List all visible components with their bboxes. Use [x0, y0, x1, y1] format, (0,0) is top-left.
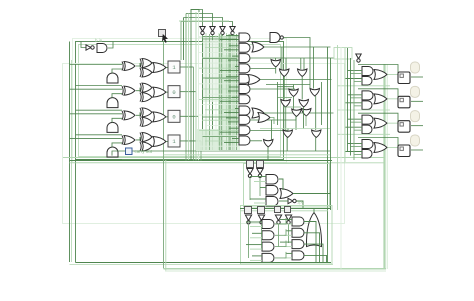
OR gate combine a — [252, 42, 264, 52]
wire: cmp vert 1 — [249, 178, 251, 200]
wire: zero-detect 11 inputs — [232, 138, 239, 140]
wire: operand bus vertical 6 — [223, 35, 225, 150]
AND gate zero-detect 4 — [239, 64, 250, 73]
wire: operand bus dark weave — [203, 38, 238, 40]
XOR gate row4 (sum half) — [124, 135, 135, 144]
wire: row1 carry up stub — [112, 69, 122, 73]
wire: dec feeds right — [280, 219, 292, 221]
wire: right feed vertical x345 — [344, 48, 346, 162]
wire: group2 enable top — [358, 89, 398, 98]
NOT gate cmp out — [288, 198, 293, 203]
wire: dec vert 2 — [261, 224, 263, 250]
wire: carry out feed from adder — [112, 151, 126, 156]
wire: operand bus vertical dark b — [229, 34, 231, 150]
wire: row1 riser vertical — [190, 10, 192, 161]
pin box row1 value 1 — [168, 61, 180, 73]
wire: group3 input 2 — [351, 121, 363, 123]
XOR gate row2 (sum half) — [124, 86, 135, 95]
wire: operand bus vertical 11 — [236, 34, 238, 150]
AND gate row3 carry (up) — [107, 122, 118, 132]
icon: poke tool square — [159, 30, 166, 37]
wire: group1 enable top — [358, 65, 398, 74]
wire: operand bus vertical 10 — [233, 33, 235, 150]
wire: dec left outs — [275, 218, 286, 224]
wire: drop to V3 — [300, 58, 302, 69]
wire: dec vert 4 — [288, 224, 290, 243]
wire: V1 input drop — [275, 58, 277, 60]
AND gate zero-detect 11 — [239, 136, 250, 145]
XOR gate row3 (sum half) — [124, 111, 135, 120]
AND gate out1 a — [362, 67, 373, 76]
wire: row2 riser vertical — [185, 14, 187, 161]
wire: row1 input A from bus — [70, 64, 123, 66]
AND gate out4 b — [362, 149, 372, 158]
halo fill: operand bus patch 2 — [196, 129, 219, 151]
wire: group1 or to register — [388, 74, 398, 76]
wire: out3 output — [411, 125, 423, 127]
NOT gate vertical input 2 — [210, 27, 215, 32]
AND gate out3 a — [362, 115, 373, 124]
wire: bottom run y262 — [76, 262, 332, 264]
wire: row4 xor to pair — [136, 137, 140, 140]
wire: tree vertical x321 — [321, 82, 323, 125]
wire: row3 top jog to inverter — [184, 18, 223, 27]
wire: tree vertical x271 — [271, 120, 273, 140]
wire: tree or-right out — [270, 118, 274, 125]
register box out1 — [398, 72, 410, 84]
wire: column out y89 — [250, 88, 295, 90]
wire: operand bus vertical 3 — [215, 35, 217, 150]
AND gate zero-detect 9 — [239, 115, 250, 124]
svg-text:carry out: carry out — [135, 149, 153, 154]
svg-text:b in: b in — [95, 38, 103, 43]
region halo: comparator block — [244, 164, 330, 208]
region halo: left adder block inner light — [79, 45, 281, 157]
wire: zero-detect 4 inputs — [235, 65, 239, 67]
OR gate down V3 — [298, 69, 308, 77]
AND gate dec left 3 — [262, 242, 274, 251]
wire: left vertical bus x71 light — [71, 60, 73, 262]
OR gate row3 (combine) — [153, 112, 166, 122]
halo fill: operand bus patch 3 — [203, 40, 221, 102]
icon: poke tool arrow cursor — [162, 34, 168, 43]
wire: V1 output — [275, 67, 277, 74]
AND gate row4 carry (up) — [107, 147, 118, 157]
wire: row2 input B from bus — [76, 109, 123, 111]
wire: V12 output down to bus — [267, 147, 269, 161]
wire: operand bus vertical dark a — [219, 34, 221, 150]
OR gate down V5 — [310, 89, 320, 97]
wire: column out y141 — [250, 140, 262, 142]
wire: row1 or to pin — [166, 67, 168, 69]
wire: subtract AND output — [108, 42, 113, 49]
wire: group1 input 3 — [345, 78, 362, 80]
wire: group2 input 3 — [345, 102, 362, 104]
OR gate out1 — [374, 70, 387, 80]
wire: tree feed v304 — [303, 58, 305, 70]
AND gate out2 a — [362, 91, 373, 100]
wire: cmp vert 2 — [259, 178, 261, 196]
NOT gate vertical input 1 — [200, 27, 205, 32]
wire: row4 riser vertical — [180, 22, 182, 61]
AND gate zero-detect 10 — [239, 126, 250, 135]
LED out1 (off) — [411, 62, 420, 73]
wire: V2 output down to V6 — [283, 77, 285, 100]
wire: dec vert 3 — [278, 224, 280, 247]
wire: row1 sum drop vertical — [193, 67, 195, 161]
wire: right feed vertical x337 light — [337, 45, 339, 210]
XOR gate row3 (sum full) — [142, 108, 152, 117]
wire: decoder top bus 1 — [240, 208, 331, 210]
wire: zero-detect 7 inputs — [232, 96, 239, 98]
wire: row1 xor to pair — [136, 63, 140, 66]
wire: tree feed v286 — [285, 58, 287, 70]
wire: row2 sum drop vertical — [195, 92, 197, 161]
wire: row1 top jog to inverter — [191, 10, 203, 27]
wire: vertical link x163 — [163, 42, 165, 269]
wire: cmp feeds — [250, 176, 266, 178]
AND gate out2 b — [362, 101, 372, 110]
OR gate down V1 (tree root) — [271, 60, 281, 68]
AND gate (subtract mask) — [97, 44, 107, 53]
wire: operand bus vertical 2 — [209, 34, 211, 150]
pin square dec 3 — [275, 207, 281, 213]
wire: inverter 1 output down — [202, 35, 204, 150]
AND gate zero-detect 3 — [239, 54, 250, 63]
wire: dec or out up — [313, 209, 315, 213]
wire: right light band x384 — [383, 64, 385, 269]
wire: group4 input 3 — [345, 150, 362, 152]
wire: group1 input 4 — [354, 81, 362, 83]
AND gate out1 b — [362, 77, 372, 86]
register box out4 — [398, 145, 410, 157]
OR gate down V2 — [280, 69, 290, 77]
wire: group2 input 4 — [354, 105, 362, 107]
wire: row1 input B from bus — [76, 85, 123, 87]
wire: tree cross y128 light — [260, 128, 330, 130]
LED out4 (off) — [411, 135, 420, 146]
wire: row2 carry up stub — [112, 94, 122, 98]
AND gate row1 carry (up) — [107, 73, 118, 83]
wire: zero-detect 3 inputs — [232, 55, 239, 57]
OR gate row2 (combine) — [153, 87, 166, 97]
wire: group4 input 2 — [351, 145, 363, 147]
wire: nand out — [284, 38, 311, 89]
wire: V10 output down — [286, 138, 288, 152]
wire: group4 enable top — [358, 137, 398, 146]
OR gate down V11 — [312, 130, 322, 138]
OR gate out2 — [374, 94, 387, 104]
wire: comparator top feed — [164, 154, 331, 156]
pin box row3 value 0 — [168, 110, 180, 122]
wire: cmp and1 out — [279, 179, 283, 190]
wire: column out y47 — [264, 46, 331, 48]
wire: column out y79 to or-b — [260, 79, 332, 81]
AND gate out4 a — [362, 139, 373, 148]
wire: spare riser light 2 — [195, 12, 197, 160]
wire: group2 input 2 — [351, 97, 363, 99]
wire: spare riser light 3 — [198, 12, 200, 160]
wire: right feed vertical x347 — [347, 48, 349, 152]
wire: under-inverter rail — [203, 36, 239, 38]
wire: out2 output — [411, 100, 423, 102]
wire: top nest light lid — [179, 20, 229, 22]
wire: row3 input B from bus — [76, 134, 123, 136]
OR gate down V9 — [302, 109, 312, 117]
pin square dec 4 — [285, 207, 291, 213]
wire: left vertical bus x75 — [75, 159, 77, 263]
wire: cmp or out — [293, 193, 331, 195]
wire: dec vert 1 — [248, 224, 250, 258]
OR gate down V10 — [283, 130, 293, 138]
wire: cmp out right — [297, 201, 304, 209]
AND gate dec right 3 — [292, 240, 304, 249]
register box out2 — [398, 96, 410, 108]
NOT gate dec 1 — [245, 215, 251, 221]
AND gate dec left 1 — [262, 220, 274, 229]
AND gate row2 carry (up) — [107, 98, 118, 108]
OR gate row1 (combine) — [153, 63, 166, 73]
AND gate dec right 2 — [292, 228, 304, 237]
wire: row4 carry up stub — [112, 143, 122, 147]
pin square cmp in 2 — [257, 161, 264, 168]
AND gate zero-detect 2 — [239, 43, 250, 52]
OR gate combine b — [248, 75, 260, 85]
OR gate down V4 — [289, 89, 299, 97]
wire: input stub to subtract NOT — [81, 42, 86, 48]
wire: cmp and3 out — [279, 200, 288, 202]
wire: group4 input 1 — [348, 142, 363, 144]
OR gate right small (tree) — [258, 113, 270, 123]
NOT gate dec 3 — [275, 215, 281, 221]
wire: mid horizontal bus y160 dark — [70, 160, 333, 162]
wire: zero-detect 8 inputs — [235, 108, 239, 110]
wire: column out y130 — [250, 128, 288, 131]
pin square dec 2 — [258, 207, 265, 214]
AND gate cmp 1 — [266, 175, 278, 185]
wire: inter-group light 2 — [337, 109, 390, 111]
wire: row3 xor to pair — [136, 112, 140, 115]
wire: group3 or to register — [388, 122, 398, 124]
wire: row3 or to pin — [166, 116, 168, 118]
AND gate zero-detect 6 — [239, 85, 250, 94]
wire: row4 pin output to riser — [180, 140, 201, 142]
wire: mid horizontal bus y157 light — [63, 157, 384, 159]
wire: group4 or to register — [388, 146, 398, 148]
OR gate down V8 — [292, 109, 302, 117]
wire: group1 input 2 — [351, 73, 363, 75]
wire: NAND drop to V2 — [281, 47, 283, 69]
wire: row3 riser vertical — [183, 18, 185, 61]
wire: tree cross y86 — [277, 86, 294, 88]
wire: row2 xor to pair — [136, 88, 140, 91]
NOT gate vertical input 3 — [220, 27, 225, 32]
XOR gate row1 (sum half) — [124, 62, 135, 71]
halo: group feed connector box — [334, 48, 352, 60]
halo fill: operand bus patch 1 — [218, 36, 240, 150]
wire: bottom run y264 light — [70, 264, 334, 266]
OR gate combine c — [252, 108, 264, 118]
wire: row4 input B from bus — [76, 158, 123, 160]
wire: V6 output down — [284, 107, 286, 130]
pin box carry out — [126, 148, 133, 155]
pin box row4 value 1 — [168, 135, 180, 147]
wire: row4 input A from bus — [70, 137, 123, 139]
wire: inter-group light 3 — [337, 133, 390, 135]
wire: row1 pin output to riser — [180, 66, 194, 68]
OR gate row4 (combine) — [153, 136, 166, 146]
NOT gate vertical (clock input) — [356, 54, 361, 59]
region halo: left adder block outer light — [73, 39, 287, 163]
AND gate zero-detect 5 — [239, 74, 250, 83]
wire: vertical link x165 light — [165, 160, 167, 271]
wire: carry out to right — [133, 150, 331, 152]
wire: dec bottom join — [236, 262, 331, 264]
wire: column out y68 — [250, 68, 276, 70]
NOT gate cmp 1 — [247, 169, 253, 175]
wire: row2 pin output to riser — [180, 91, 196, 93]
wire: operand bus vertical 9 — [231, 35, 233, 150]
AND gate out3 b — [362, 125, 372, 134]
wire: out4 output — [411, 149, 423, 151]
wire: group4 input 4 — [354, 153, 362, 155]
wire: right light band x387 — [386, 64, 388, 269]
OR gate cmp — [280, 189, 293, 199]
wire: group3 input 1 — [348, 118, 363, 120]
wire: group3 input 3 — [345, 126, 362, 128]
wire: row4 or to pin — [166, 140, 168, 142]
NOT gate dec 2 — [258, 215, 264, 221]
wire: group1 input 1 — [348, 70, 363, 72]
svg-text:0: 0 — [172, 89, 175, 96]
halo fill: operand bus patch 4 — [222, 55, 238, 135]
wire: operand bus vertical 4 — [218, 33, 220, 150]
AND gate cmp 2 — [266, 186, 278, 196]
AND gate cmp 3 — [266, 197, 278, 207]
wire: V9 output down — [305, 116, 307, 127]
wire: decoder top bus 2 — [240, 210, 328, 212]
XOR gate row4 (sum full) — [142, 132, 152, 141]
wire: left vertical bus x69 — [69, 42, 71, 263]
wire: row2 top jog to inverter — [186, 14, 213, 27]
AND gate dec left 2 — [262, 231, 274, 240]
AND gate zero-detect 1 — [239, 33, 250, 42]
pin square cmp in 1 — [247, 161, 254, 168]
wire: row2 or to pin — [166, 91, 168, 93]
XOR gate row1 (carry mix) — [142, 68, 152, 77]
wire: inverter 3 output down — [222, 35, 224, 150]
wire: row3 sum drop vertical — [198, 116, 200, 160]
wire: right feed vertical x341 light — [340, 47, 342, 269]
wire: V8 output down — [295, 117, 297, 131]
wire: group3 enable top — [358, 113, 398, 122]
NAND gate top — [270, 33, 280, 43]
wire: row3 input A from bus — [70, 113, 123, 115]
wire: right dark vertical x331 — [327, 47, 329, 263]
wire: bottom light band y268 — [164, 268, 387, 270]
wire: mid horizontal bus y162 light — [70, 162, 385, 164]
wire: operand bus vertical 8 — [228, 34, 230, 150]
wire: spare riser light 1 — [188, 14, 190, 161]
wire: group2 or to register — [388, 98, 398, 100]
wire: tree vertical x277 — [277, 82, 279, 125]
pin box row2 value 0 — [168, 86, 180, 98]
wire: tree cross y107 — [283, 106, 301, 108]
AND gate zero-detect 7 — [239, 95, 250, 104]
register box out3 — [398, 121, 410, 133]
wire: dec right outs — [304, 222, 316, 263]
XOR gate row4 (carry mix) — [142, 142, 152, 151]
NOT gate dec 4 — [285, 215, 291, 221]
pin square dec 1 — [245, 207, 252, 214]
wire: tree cross y84 — [266, 84, 310, 86]
NOT gate cmp 2 — [257, 169, 263, 175]
wire: dec feeds left — [246, 221, 262, 223]
wire: V11 output down — [315, 138, 317, 152]
XOR gate row2 (sum full) — [142, 83, 152, 92]
OR gate out3 — [374, 118, 387, 128]
XOR gate row2 (carry mix) — [142, 93, 152, 102]
wire: V5 output down to V11 — [315, 96, 317, 130]
wire: operand bus vertical 7 — [226, 33, 228, 150]
wire: out1 output — [411, 76, 423, 78]
wire: column out y57 — [250, 57, 334, 59]
region halo: left adder block outer — [76, 42, 284, 160]
OR gate down V12 — [264, 140, 274, 148]
wire: zero-detect 2 inputs — [229, 45, 239, 47]
OR gate dec output (up) — [306, 213, 321, 247]
NOT gate vertical input 4 — [230, 27, 235, 32]
region halo: big mid block light — [63, 64, 345, 224]
region halo: decoder block — [241, 206, 333, 265]
wire: inverter 2 output down — [212, 35, 214, 150]
wire: bottom light band y271 — [165, 270, 386, 272]
svg-text:0: 0 — [172, 114, 175, 121]
AND gate zero-detect 8 — [239, 106, 250, 115]
wire: zero-detect 6 inputs — [229, 86, 239, 88]
AND gate dec left 4 — [262, 253, 274, 262]
wire: zero-detect 1 inputs — [226, 35, 239, 37]
wire: right feed vertical x350 — [350, 58, 352, 156]
wire: inter-group light 1 — [337, 85, 390, 87]
wire: V7 output down — [303, 107, 305, 129]
wire: row3 pin output to riser — [180, 115, 199, 117]
wire: row4 top jog to inverter — [181, 22, 233, 27]
wire: zero-detect 10 inputs — [229, 127, 239, 129]
wire: operand bus vertical 5 — [221, 34, 223, 150]
wire: column out y113 — [264, 112, 334, 114]
wire: V3 output down to V7 — [301, 77, 303, 100]
AND gate dec right 4 — [292, 251, 304, 260]
LED out2 (off) — [411, 86, 420, 97]
wire: zero-detect 5 inputs — [226, 76, 239, 78]
wire: operand bus vertical 1 — [205, 33, 207, 150]
OR gate out4 — [374, 142, 387, 152]
wire: V4 output down to V8 — [293, 97, 295, 110]
wire: row2 input A from bus — [70, 88, 123, 90]
wire: group2 input 1 — [348, 94, 363, 96]
LED out3 (off) — [411, 111, 420, 122]
wire: inverter 4 output down — [232, 35, 234, 150]
NOT gate (subtract invert) — [86, 45, 91, 50]
wire: zero-detect 9 inputs — [226, 117, 239, 119]
wire: drop to V5 — [313, 47, 315, 89]
wire: top nest small box — [191, 10, 199, 13]
wire: operand bus horizontal weave — [199, 36, 239, 38]
wire: row3 carry up stub — [112, 118, 122, 122]
AND gate dec right 1 — [292, 217, 304, 226]
wire: tree cross y97 — [278, 97, 293, 99]
